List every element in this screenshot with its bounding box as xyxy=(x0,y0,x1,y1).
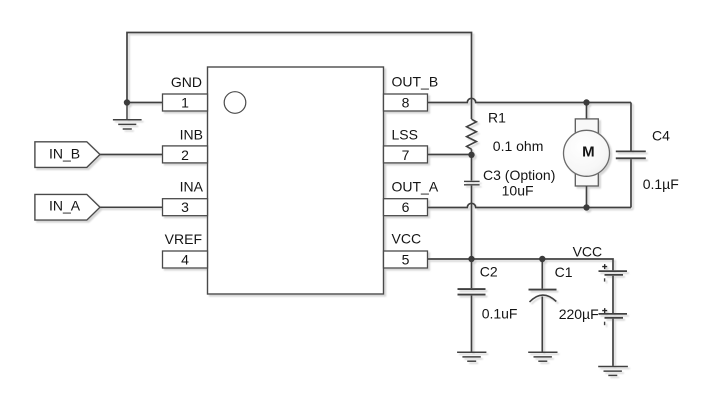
wire: LSS pin 7 to R1 node xyxy=(428,154,472,156)
wire: pin1 GND to junction xyxy=(127,102,163,104)
junction dot C2/VCC node xyxy=(468,256,474,262)
junction dot motor bottom xyxy=(583,204,589,210)
svg-text:C2: C2 xyxy=(480,263,498,279)
svg-text:C4: C4 xyxy=(652,128,670,144)
svg-text:8: 8 xyxy=(402,95,410,111)
svg-text:VCC: VCC xyxy=(573,243,603,259)
wire: OUT_A pin 6 bottom rail (hop over vertical) xyxy=(428,203,632,207)
svg-text:7: 7 xyxy=(402,147,410,163)
junction dot C1 node xyxy=(539,256,545,262)
svg-text:GND: GND xyxy=(171,74,202,90)
svg-text:10uF: 10uF xyxy=(502,183,534,199)
svg-text:4: 4 xyxy=(181,252,189,268)
capacitor C1 (polarized) xyxy=(541,259,543,289)
IC pin-1 indicator circle xyxy=(224,92,246,114)
svg-text:C3 (Option): C3 (Option) xyxy=(483,167,555,183)
plus mark cell 2 xyxy=(602,308,607,313)
junction dot at GND node xyxy=(124,99,130,105)
pin box 8 xyxy=(384,94,428,111)
pin box 5 xyxy=(384,251,428,268)
wire battery to ground xyxy=(612,319,614,366)
pin box 2 xyxy=(163,146,208,163)
plus mark cell 1 xyxy=(602,264,607,269)
svg-text:LSS: LSS xyxy=(392,126,418,142)
resistor R1 xyxy=(467,119,477,149)
capacitor C3 plates xyxy=(464,180,480,182)
wire between cells xyxy=(612,276,614,313)
wire: top rail from GND junction to right vertical xyxy=(127,33,472,120)
svg-text:IN_A: IN_A xyxy=(49,198,81,214)
svg-text:3: 3 xyxy=(181,199,189,215)
battery VCC supply cell 1 xyxy=(599,270,628,272)
svg-text:INB: INB xyxy=(180,126,203,142)
pin box 1 xyxy=(163,94,208,111)
svg-text:1: 1 xyxy=(181,95,189,111)
ground (C2) xyxy=(457,352,486,361)
junction dot motor top xyxy=(583,99,589,105)
minus tick cell 1 xyxy=(604,278,606,281)
svg-text:VREF: VREF xyxy=(165,231,202,247)
ground (battery) xyxy=(598,367,628,376)
wire: motor top xyxy=(586,103,588,120)
wire: C4 top xyxy=(630,103,632,151)
svg-text:INA: INA xyxy=(180,179,204,195)
svg-text:5: 5 xyxy=(402,252,410,268)
input tag IN_B xyxy=(35,142,100,168)
motor body M1 xyxy=(564,130,610,176)
wire: C4 bottom xyxy=(630,159,632,207)
pin box 4 xyxy=(163,251,208,268)
ground (top-left) xyxy=(113,103,142,130)
svg-text:0.1µF: 0.1µF xyxy=(643,176,679,192)
svg-text:VCC: VCC xyxy=(392,231,422,247)
svg-text:6: 6 xyxy=(402,199,410,215)
minus tick cell 2 xyxy=(604,322,606,326)
capacitor C4 plates xyxy=(616,150,646,152)
svg-text:R1: R1 xyxy=(488,109,506,125)
wire: OUT_B pin 8 to motor/C4 top rail (hop over vertical) xyxy=(428,98,632,102)
motor terminal top xyxy=(575,119,598,135)
wire: IN_B tag to pin 2 xyxy=(100,154,163,156)
battery VCC supply cell 2 xyxy=(599,313,628,315)
IC body U1 xyxy=(208,67,384,294)
svg-text:0.1uF: 0.1uF xyxy=(482,305,518,321)
svg-text:OUT_B: OUT_B xyxy=(392,73,439,89)
wire: VCC pin 5 rail to battery xyxy=(428,259,614,270)
svg-text:C1: C1 xyxy=(555,264,573,280)
pin box 7 xyxy=(384,146,428,163)
junction dot at LSS node xyxy=(468,152,474,158)
svg-text:220µF: 220µF xyxy=(559,306,599,322)
svg-text:IN_B: IN_B xyxy=(49,145,80,161)
pin box 6 xyxy=(384,199,428,216)
input tag IN_A xyxy=(35,194,100,220)
svg-text:OUT_A: OUT_A xyxy=(392,179,439,195)
svg-text:2: 2 xyxy=(181,147,189,163)
pin box 3 xyxy=(163,199,208,216)
motor terminal bottom xyxy=(575,170,598,186)
wire: IN_A tag to pin 3 xyxy=(100,206,163,208)
wire: C3 bottom down to VCC rail xyxy=(471,186,473,259)
svg-text:M: M xyxy=(582,144,595,161)
capacitor C2 xyxy=(471,259,473,288)
wire: R1 bottom to LSS junction to C3 xyxy=(471,149,473,180)
svg-text:0.1 ohm: 0.1 ohm xyxy=(493,138,544,154)
ground (C1) xyxy=(528,352,557,361)
wire: motor bottom xyxy=(586,186,588,208)
